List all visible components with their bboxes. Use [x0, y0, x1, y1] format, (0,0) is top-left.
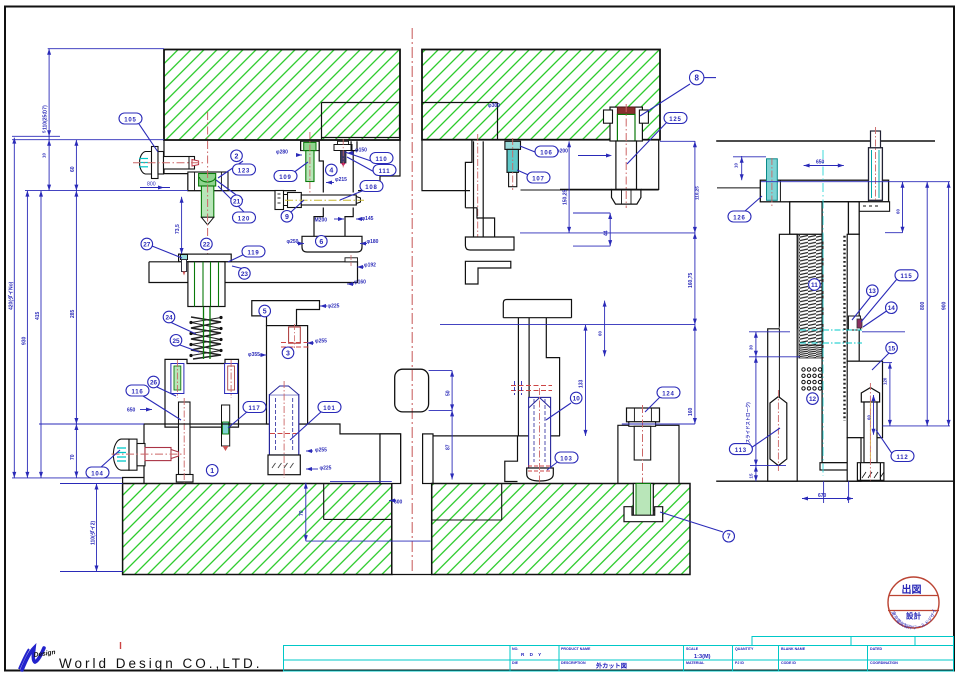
seam of insert	[422, 103, 498, 141]
svg-text:設計: 設計	[906, 611, 922, 621]
svg-text:φ225: φ225	[328, 304, 340, 310]
svg-text:φ160: φ160	[354, 280, 366, 286]
svg-text:外カット図: 外カット図	[596, 662, 627, 670]
balloon 112	[891, 451, 914, 462]
svg-text:50: 50	[446, 390, 452, 396]
balloon 27 (circled)	[141, 238, 153, 250]
svg-text:22: 22	[203, 242, 211, 249]
upper die set right (hatched)	[422, 50, 660, 140]
bolt 109 shaft	[306, 151, 314, 182]
left margin extension lines	[12, 135, 60, 137]
svg-text:COORDINATION: COORDINATION	[870, 661, 898, 665]
top dim line	[48, 48, 164, 50]
balloon 119	[242, 246, 265, 257]
lifter block	[165, 359, 239, 427]
svg-text:120: 120	[883, 377, 888, 385]
svg-text:φ300: φ300	[488, 103, 500, 109]
svg-text:120: 120	[238, 216, 250, 222]
bolt 104	[112, 439, 184, 470]
svg-text:415: 415	[35, 311, 41, 320]
pocket under right ear	[848, 202, 890, 212]
svg-text:11: 11	[811, 282, 818, 289]
svg-text:10: 10	[734, 163, 739, 168]
svg-text:10: 10	[573, 396, 581, 403]
svg-text:107: 107	[532, 176, 544, 182]
balloon 125	[664, 113, 687, 124]
column center line (cyan)	[822, 150, 824, 476]
balloon 13 (circled)	[867, 285, 879, 297]
svg-text:φ280: φ280	[276, 150, 288, 156]
left margin vertical dims	[13, 138, 15, 478]
svg-text:160,75: 160,75	[688, 272, 694, 288]
svg-text:3: 3	[286, 350, 290, 357]
cyan stud left	[767, 158, 778, 206]
svg-text:1: 1	[210, 468, 214, 475]
svg-text:M200: M200	[315, 218, 328, 224]
dimension arrowheads	[12, 49, 950, 572]
svg-text:5: 5	[263, 309, 267, 316]
svg-text:73,5: 73,5	[175, 224, 181, 234]
svg-text:650: 650	[127, 408, 136, 414]
balloon 7 (circled)	[723, 530, 735, 542]
svg-text:800: 800	[147, 182, 156, 188]
svg-text:DESCRIPTION: DESCRIPTION	[561, 661, 586, 665]
svg-text:8: 8	[694, 73, 699, 82]
upper die insert seam	[322, 103, 400, 141]
svg-text:CODE ID: CODE ID	[781, 661, 796, 665]
svg-text:110(25の7): 110(25の7)	[43, 105, 49, 130]
bolt 124 socket in lower block	[624, 484, 663, 522]
svg-text:World Design CO.,LTD.: World Design CO.,LTD.	[59, 656, 263, 671]
left lower wall	[768, 234, 798, 481]
title block table	[284, 646, 954, 672]
svg-text:70: 70	[299, 510, 305, 516]
balloon 4 (circled)	[326, 164, 338, 176]
spring coil	[191, 317, 221, 359]
svg-text:119: 119	[247, 250, 259, 256]
svg-text:φ150: φ150	[355, 148, 367, 154]
lower block pair near slot	[380, 434, 433, 484]
guide column	[822, 202, 848, 463]
retainer small parts	[848, 316, 860, 330]
right sleeve	[847, 234, 859, 361]
balloon 10 (circled)	[570, 392, 582, 404]
flange plate	[760, 180, 888, 202]
leaders	[139, 124, 158, 152]
punch retainer socket	[188, 172, 228, 191]
svg-text:4: 4	[329, 168, 333, 175]
balloon 3 (circled)	[282, 347, 294, 359]
balloon 14 (circled)	[886, 302, 898, 314]
lower holder block right	[433, 300, 572, 482]
svg-text:2: 2	[235, 153, 239, 160]
svg-text:103: 103	[560, 456, 572, 462]
svg-text:φ255: φ255	[315, 448, 327, 454]
balloon 110	[370, 153, 393, 164]
svg-text:115: 115	[900, 274, 912, 280]
balloon 104	[86, 467, 109, 478]
small bolt 27	[181, 255, 188, 276]
svg-text:116: 116	[131, 389, 143, 395]
balloon 24 (circled)	[163, 311, 175, 323]
horizontal bolt 108	[275, 191, 364, 210]
svg-text:109: 109	[279, 175, 291, 181]
balloon 5 (circled)	[259, 305, 271, 317]
balloon 126	[728, 211, 751, 222]
svg-text:R D Y: R D Y	[521, 652, 543, 657]
svg-text:6: 6	[319, 239, 323, 246]
balloon 6 (circled)	[316, 236, 328, 248]
svg-text:110: 110	[375, 157, 387, 163]
svg-text:26: 26	[150, 380, 158, 387]
rounded product outline	[395, 369, 429, 412]
center line punch	[207, 112, 209, 296]
punch 22 shaft	[201, 186, 213, 225]
company logo W	[19, 648, 56, 670]
svg-text:117: 117	[248, 406, 260, 412]
svg-text:30: 30	[749, 345, 754, 350]
top plate line	[716, 140, 935, 142]
stripper bolt 8 pocket	[604, 104, 649, 208]
perforation dots	[802, 368, 822, 390]
balloon 26 (circled)	[148, 376, 160, 388]
svg-text:150,25: 150,25	[563, 189, 569, 205]
svg-text:106: 106	[540, 150, 552, 156]
balloon 22 (circled)	[201, 238, 213, 250]
ground line	[716, 480, 953, 482]
lower die block right (hatched)	[432, 484, 690, 575]
svg-text:111: 111	[379, 169, 391, 175]
pin 117	[222, 405, 230, 451]
svg-text:124: 124	[662, 391, 674, 397]
right lower wall	[847, 361, 882, 438]
svg-text:160: 160	[688, 407, 694, 416]
svg-text:44: 44	[604, 230, 610, 236]
dim 800 under bolt 105	[140, 182, 170, 190]
balloon 23 (circled)	[239, 268, 251, 280]
balloon 108	[360, 181, 383, 192]
lower right block	[618, 425, 679, 483]
svg-text:104: 104	[91, 471, 103, 477]
svg-text:φ215: φ215	[335, 177, 347, 183]
svg-text:125: 125	[669, 117, 681, 123]
guide block 5	[252, 301, 320, 326]
center slot white	[393, 484, 432, 574]
svg-text:24: 24	[165, 315, 173, 322]
inner bolts of lifter block	[171, 360, 238, 398]
svg-text:12: 12	[809, 396, 817, 403]
svg-text:DATED: DATED	[870, 647, 883, 651]
balloon 101	[318, 402, 341, 413]
small phi-dim arrows	[140, 151, 612, 503]
svg-text:60: 60	[598, 331, 603, 336]
svg-text:φ192: φ192	[364, 263, 376, 269]
lifter rod 10 with screw 103	[527, 388, 554, 483]
balloon 120	[233, 212, 256, 223]
svg-text:420(ダイNo): 420(ダイNo)	[8, 281, 15, 310]
guide sleeve green	[195, 262, 219, 307]
balloon 8 (circled)	[690, 70, 704, 84]
balloon 106	[535, 146, 558, 157]
svg-text:PJ ID: PJ ID	[735, 661, 744, 665]
svg-text:60: 60	[867, 415, 872, 420]
red/blue section marks	[511, 385, 552, 387]
shoulder bolt 105	[133, 147, 203, 179]
lower die plate 1	[123, 424, 401, 484]
balloon 109	[274, 171, 297, 182]
svg-text:DIE: DIE	[512, 661, 519, 665]
svg-text:23: 23	[241, 271, 249, 278]
balloon 124	[657, 387, 680, 398]
upper plate outline right view	[422, 140, 659, 237]
svg-text:60: 60	[70, 166, 76, 172]
guide rod 116	[176, 398, 193, 486]
upper body	[790, 202, 860, 235]
svg-text:QUANTITY: QUANTITY	[735, 647, 754, 651]
svg-text:25: 25	[172, 338, 180, 345]
punch stroke dim	[181, 197, 183, 254]
left sleeve wall	[779, 234, 797, 328]
svg-text:15: 15	[888, 345, 896, 352]
svg-text:NO.: NO.	[512, 647, 518, 651]
lower center dims	[305, 483, 307, 541]
red tick above company name	[120, 642, 122, 649]
svg-text:27: 27	[143, 242, 151, 249]
die holder T-part	[465, 208, 514, 284]
svg-text:70: 70	[70, 454, 76, 460]
circled numbers	[141, 70, 897, 542]
svg-text:7: 7	[727, 534, 731, 541]
balloon 123	[233, 164, 256, 175]
main center line	[411, 28, 413, 574]
svg-text:φ250: φ250	[287, 239, 299, 245]
balloon 107	[527, 172, 550, 183]
svg-text:φ180: φ180	[367, 239, 379, 245]
svg-text:φ225: φ225	[320, 466, 332, 472]
svg-text:BLANK NAME: BLANK NAME	[781, 647, 806, 651]
balloon 115	[895, 270, 918, 281]
svg-text:670: 670	[818, 493, 827, 499]
balloon 113	[729, 444, 752, 455]
bolt 124	[627, 405, 660, 520]
die insert 3	[267, 326, 308, 424]
oval balloons	[86, 113, 918, 479]
svg-text:13: 13	[869, 288, 877, 295]
svg-text:φ355: φ355	[248, 352, 260, 358]
svg-text:650: 650	[816, 160, 825, 166]
svg-text:123: 123	[238, 168, 250, 174]
big spring (coil pattern)	[799, 234, 823, 345]
svg-text:15: 15	[749, 473, 754, 478]
svg-text:101: 101	[323, 406, 335, 412]
svg-text:800: 800	[920, 301, 926, 310]
svg-text:930: 930	[22, 336, 28, 345]
balloon 2 (circled)	[231, 150, 243, 162]
upper plate outline	[164, 140, 400, 191]
svg-text:112: 112	[896, 455, 908, 461]
balloon 1 (circled)	[206, 465, 218, 477]
svg-text:900: 900	[942, 301, 948, 310]
socket block 9 left	[275, 191, 284, 210]
svg-text:10: 10	[42, 153, 47, 158]
stripper plate 23 assembly	[149, 254, 358, 306]
lower die block (hatched)	[123, 484, 392, 575]
svg-text:87: 87	[446, 444, 452, 450]
svg-text:1:3(M): 1:3(M)	[694, 654, 711, 660]
dimension texts	[8, 103, 948, 545]
balloon 9 (circled)	[281, 211, 293, 223]
balloon 25 (circled)	[170, 335, 182, 347]
balloon 11 (circled)	[809, 279, 821, 291]
bolt 109 socket	[301, 141, 320, 150]
knock pin 113	[770, 390, 787, 471]
svg-text:60: 60	[896, 209, 901, 214]
balloon 111	[373, 165, 396, 176]
svg-text:110(ダイ2): 110(ダイ2)	[90, 520, 97, 545]
svg-text:MATERIAL: MATERIAL	[686, 661, 705, 665]
svg-text:113: 113	[735, 448, 747, 454]
bolt 112	[857, 383, 884, 483]
phi192 notch on plate	[345, 258, 358, 262]
svg-text:108: 108	[365, 185, 377, 191]
svg-text:110,25: 110,25	[695, 186, 700, 200]
svg-text:出図: 出図	[902, 583, 922, 596]
balloon 15 (circled)	[886, 342, 898, 354]
mid view right dims	[568, 141, 570, 233]
balloon 105	[119, 113, 142, 124]
svg-text:126: 126	[733, 215, 745, 221]
svg-text:φ145: φ145	[362, 216, 374, 222]
balloon 117	[243, 402, 266, 413]
cyan seat lines	[800, 329, 862, 331]
svg-text:SCALE: SCALE	[686, 647, 699, 651]
punch holder 4 body	[301, 141, 362, 252]
svg-text:285: 285	[70, 309, 76, 318]
red section marks on insert	[281, 342, 311, 344]
upper die set block (hatched)	[164, 50, 400, 141]
svg-text:φ255: φ255	[315, 339, 327, 345]
balloon 116	[126, 385, 149, 396]
svg-text:PRODUCT NAME: PRODUCT NAME	[561, 647, 591, 651]
svg-text:133: 133	[579, 379, 585, 388]
svg-text:105: 105	[124, 117, 136, 123]
lifter bolt 101	[268, 381, 300, 478]
guide bolt 106/107	[505, 138, 521, 190]
balloon 103	[555, 452, 578, 463]
balloon 12 (circled)	[807, 393, 819, 405]
svg-text:21: 21	[233, 198, 241, 205]
balloon 21 (circled)	[231, 195, 243, 207]
right small spring dotted	[843, 236, 845, 421]
set bolt 111	[334, 139, 352, 168]
upper small row	[752, 637, 954, 646]
svg-text:9: 9	[285, 214, 289, 221]
svg-text:14: 14	[888, 305, 896, 312]
stud right	[869, 127, 883, 206]
right view dims	[741, 156, 743, 180]
